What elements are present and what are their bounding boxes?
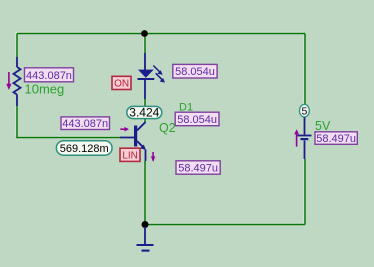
svg-text:5: 5 [301,106,307,118]
label battery current box 58.497u [315,132,357,145]
label base value box 443.087n [61,117,110,130]
base voltage box 569.128m [56,141,112,155]
svg-text:Q2: Q2 [159,121,176,135]
wire left vertical lower + horizontal to base [17,106,120,138]
svg-text:443.087n: 443.087n [62,118,108,130]
svg-text:3.424: 3.424 [129,106,159,120]
label LED current box 58.054u [173,64,217,78]
svg-text:569.128m: 569.128m [60,143,109,155]
LED emission arrow 1 [153,66,162,75]
wire LED to collector [144,99,146,122]
label LIN condition box [120,148,140,161]
junction node top [141,30,148,37]
base current arrow [120,127,129,132]
wire left vertical upper [16,34,18,58]
node 5 circle [300,104,310,117]
transistor Q2 [120,122,146,161]
battery current arrow [294,129,299,146]
svg-text:58.054u: 58.054u [177,114,217,126]
LED emission arrow 2 [156,73,165,82]
wire highlight emboss [16,32,304,223]
resistor current arrow [6,72,11,90]
svg-text:58.497u: 58.497u [316,133,356,145]
label R1 value box 443.087n [25,68,74,82]
emitter current arrow [151,152,155,162]
wire emitter to ground junction [144,161,146,225]
svg-text:10meg: 10meg [25,82,65,97]
wire top [17,33,305,35]
label emitter current box 58.497u [176,161,220,175]
LED D1 [138,53,155,99]
wire right vertical lower [304,159,306,225]
battery V1 5V [298,117,312,159]
wire center top (junction to LED) [144,34,146,54]
node voltage box 3.424 [127,106,162,120]
junction node bottom [142,221,149,228]
svg-text:ON: ON [114,79,129,90]
svg-text:58.497u: 58.497u [178,162,218,174]
label ON condition box [112,76,131,89]
resistor R1 [14,57,21,106]
wire right vertical upper [304,34,306,106]
svg-text:5V: 5V [315,119,331,133]
label D1 value box 58.054u [175,112,219,126]
svg-text:58.054u: 58.054u [175,66,215,78]
svg-text:443.087n: 443.087n [26,70,72,82]
svg-text:LIN: LIN [122,151,138,162]
wire bottom [145,224,305,226]
ground [137,227,154,251]
